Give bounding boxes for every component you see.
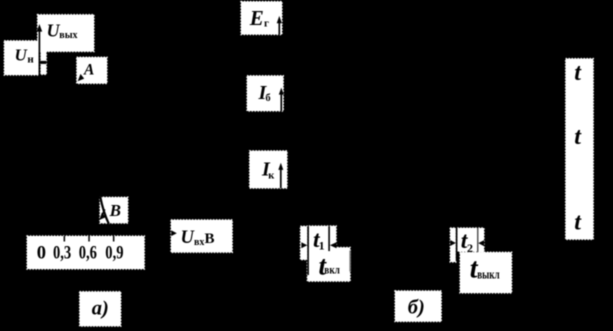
time axis labels strip (t,t,t) (566, 59, 594, 240)
svg-text:0: 0 (37, 244, 46, 264)
Iб axis arrow (279, 88, 284, 111)
t1 interval: left white strip (300, 226, 307, 260)
tвкл label box (307, 247, 350, 281)
svg-text:выкл: выкл (477, 268, 499, 282)
svg-text:а): а) (92, 298, 109, 320)
axis tick 0,6 (88, 236, 90, 242)
svg-text:U: U (15, 46, 28, 65)
white sliver right of y-axis (41, 51, 47, 75)
label Iк box (250, 151, 288, 188)
svg-text:к: к (268, 170, 275, 181)
t2 right white sliver (478, 228, 484, 252)
svg-text:вкл: вкл (324, 263, 340, 277)
svg-text:вых: вых (59, 30, 77, 41)
label A box (77, 57, 107, 83)
t1 interval boundary line left (307, 226, 309, 275)
axis tick 0,3 (64, 236, 66, 242)
t1 text (313, 227, 325, 253)
svg-text:г: г (264, 18, 269, 30)
t1 interval arrowhead pointing left (330, 242, 337, 248)
tвкл text (319, 251, 341, 281)
Iк axis arrow (278, 163, 283, 188)
tвыкл label box (460, 252, 512, 293)
t2 interval arrowhead pointing left (478, 240, 484, 246)
t1 interval boundary line right (328, 226, 330, 251)
label б) box (395, 291, 441, 322)
label Uвх,В box (171, 220, 232, 253)
t2 interval boundary line left (456, 228, 458, 260)
label Iб box (247, 76, 283, 111)
label Uн box (4, 41, 38, 75)
Eг axis arrow (277, 16, 282, 35)
t2 text (461, 228, 473, 255)
t2 interval boundary line right (gray) (477, 228, 479, 252)
transfer characteristic curve through B box (100, 197, 109, 224)
svg-text:В: В (109, 201, 121, 220)
svg-text:0,3: 0,3 (53, 244, 71, 264)
label Uвых box (38, 15, 95, 52)
y-axis arrow (Uвых axis) (37, 24, 43, 74)
svg-text:б): б) (408, 296, 425, 318)
label Eг box (241, 2, 282, 35)
leader arrowhead from B (99, 209, 105, 220)
waveform edge (gray) at right of tвкл box (349, 250, 351, 271)
tвыкл text (470, 253, 500, 284)
label а) box (80, 292, 121, 327)
leader arrowhead from A (78, 74, 85, 81)
t2 interval: left white strip (450, 228, 456, 262)
svg-text:A: A (83, 62, 94, 79)
svg-text:0,9: 0,9 (105, 244, 123, 264)
svg-text:вх: вх (194, 237, 204, 248)
t1 label box (309, 226, 336, 251)
axis tick 0,9 (113, 236, 115, 242)
svg-text:н: н (27, 53, 34, 65)
Uн level tick on axis (40, 61, 46, 64)
svg-text:0,6: 0,6 (79, 244, 97, 264)
label B box (100, 197, 128, 223)
svg-text:б: б (265, 93, 270, 104)
t2 interval arrowhead pointing right (450, 240, 456, 246)
svg-text:В: В (205, 231, 215, 247)
t1 interval arrowhead pointing right (301, 242, 307, 248)
x-axis numbers box (27, 236, 144, 269)
svg-text:E: E (249, 6, 264, 30)
t2 label box (457, 228, 477, 252)
